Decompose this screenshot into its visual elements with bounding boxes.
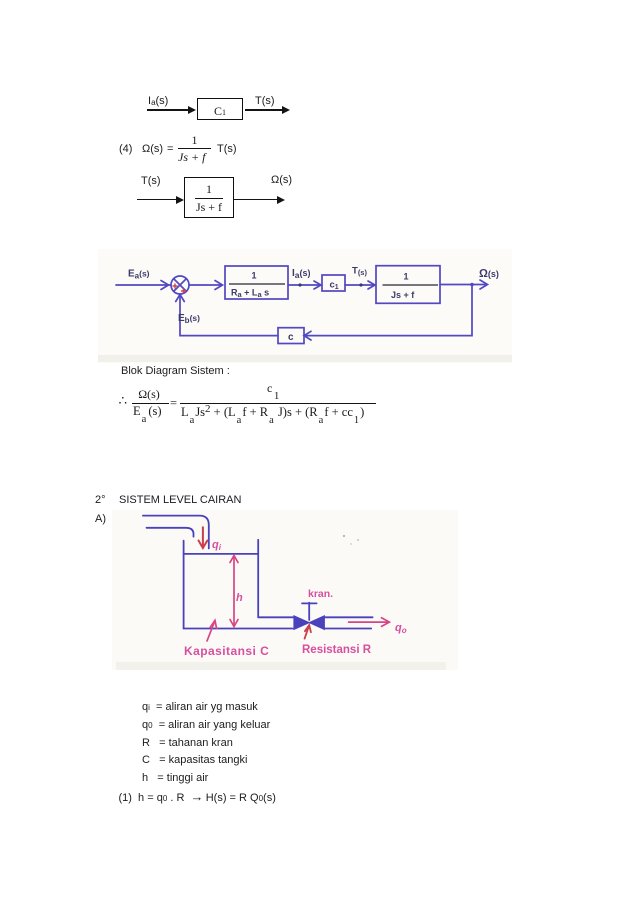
right fraction numerator c1 (267, 381, 279, 396)
handwritten labels (128, 266, 499, 344)
fraction bar (178, 148, 211, 149)
magenta outlet flow arrow (349, 621, 388, 623)
svg-text:c: c (288, 332, 294, 343)
wire input to C1 (147, 109, 189, 111)
block c (feedback gain) (278, 328, 304, 344)
block c1 (322, 275, 345, 291)
tank left wall (183, 541, 185, 629)
fraction 1/(Js+f) numerator (178, 133, 211, 148)
equation (1) (119, 791, 276, 804)
magenta level arrow h (double headed) (207, 556, 389, 642)
wire C1 to output (245, 109, 282, 111)
outlet pipe top (258, 616, 294, 618)
arrowhead into C1 (188, 106, 196, 114)
arrowhead output (277, 196, 285, 204)
water surface line (184, 553, 259, 555)
svg-text:Ra + La s: Ra + La s (231, 288, 269, 300)
summing junction circle (171, 276, 189, 294)
svg-text:kran.: kran. (308, 588, 333, 600)
valve body bowtie (294, 616, 324, 629)
wire input (137, 199, 177, 201)
block C1 (197, 98, 243, 120)
left fraction numerator Omega(s) (130, 387, 168, 402)
block fraction denominator (186, 200, 232, 215)
node Omega(s) label (271, 174, 292, 186)
label (4) (119, 143, 132, 155)
block 1/(Ra+Las) (225, 266, 288, 299)
node Ia(s) label (148, 95, 168, 107)
svg-text:h: h (236, 592, 243, 604)
wire junction to block1 (189, 284, 222, 286)
valve stem (302, 603, 317, 620)
fraction denominator Js+f (178, 150, 205, 165)
svg-text:Ω(s): Ω(s) (479, 268, 499, 280)
equals (167, 143, 173, 155)
inlet pipe outer wall (143, 516, 209, 549)
right fraction bar (180, 403, 376, 404)
red arrow pointing at valve (resistansi) (305, 625, 311, 639)
junction dots (298, 283, 301, 286)
arrowhead output (282, 106, 290, 114)
svg-text:Kapasitansi C: Kapasitansi C (184, 644, 269, 658)
block fraction bar (195, 198, 223, 199)
scan paper background (98, 249, 512, 363)
red inlet flow arrow (199, 527, 208, 548)
magenta arrow from Kapasitansi C to tank bottom (207, 622, 215, 642)
red plus signs in summing junction (173, 284, 187, 294)
outlet pipe right of valve top (324, 616, 372, 618)
svg-text:1: 1 (251, 271, 256, 281)
node T(s) label (141, 175, 161, 187)
inlet pipe inner wall (147, 528, 194, 537)
node T(s) label (255, 95, 275, 107)
wire block c to summing junction (180, 296, 278, 336)
block 1/(Js+f) (376, 266, 440, 304)
wire c1 to block2 (345, 284, 374, 286)
svg-text:T(s): T(s) (352, 266, 367, 278)
svg-text:Js + f: Js + f (391, 290, 415, 300)
left fraction denominator Ea(s) (133, 404, 162, 419)
fraction bars inside blocks (229, 284, 438, 285)
wire block2 to output (440, 284, 485, 286)
wire Ea(s) input (116, 284, 171, 286)
scan paper background (112, 510, 458, 670)
omega(s) (142, 143, 163, 155)
left fraction bar (132, 403, 169, 404)
therefore symbol (119, 393, 128, 409)
outlet pipe right of valve bottom (324, 628, 371, 630)
svg-text:Resistansi R: Resistansi R (302, 644, 372, 656)
handwritten magenta labels (184, 539, 407, 658)
block 1/(Js+f) (184, 177, 234, 218)
arrowhead into block (176, 196, 184, 204)
svg-text:1: 1 (403, 272, 408, 282)
T(s) factor (217, 143, 237, 155)
tank right wall (257, 540, 259, 618)
wire output (234, 199, 277, 201)
tank bottom / outlet pipe bottom (184, 628, 293, 630)
arrowhead into summing junction (161, 281, 169, 290)
wire feedback: node down, left to block c (305, 285, 472, 336)
block fraction numerator (186, 182, 232, 197)
wire block1 to c1 (288, 284, 320, 286)
right fraction denominator (181, 405, 364, 420)
paper specks (343, 535, 359, 545)
equals (170, 396, 177, 411)
